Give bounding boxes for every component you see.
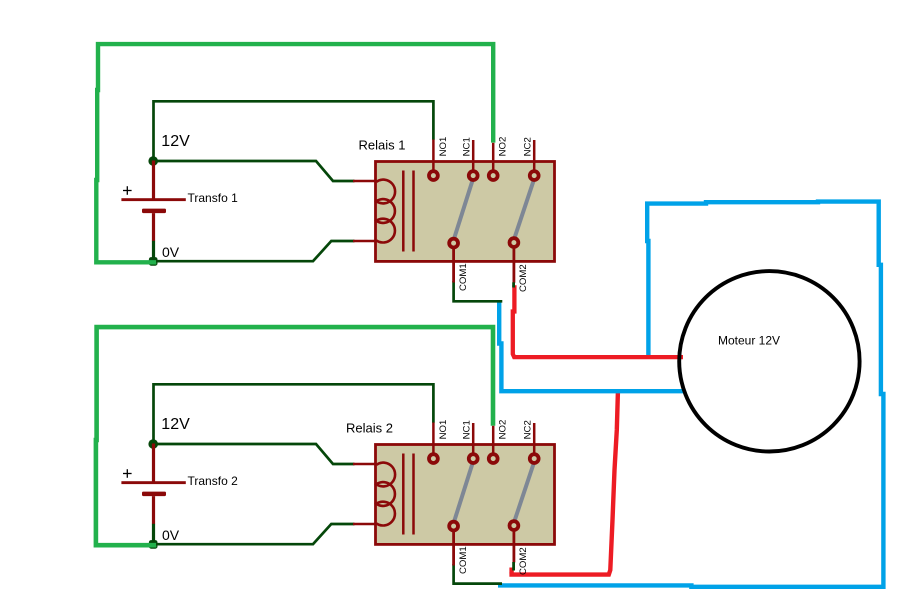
pin NO2 RL2 xyxy=(489,426,498,463)
pin NC1 RL2 xyxy=(469,423,478,463)
wire COM1 of RL1 to blue net xyxy=(454,281,503,301)
wire COM1 of RL2 to blue net xyxy=(454,564,502,584)
net label 0V circuit 1 xyxy=(162,244,180,260)
pin label NC2 RL2 xyxy=(523,420,534,439)
pin label NC2 RL1 xyxy=(523,137,534,156)
pin label NC1 RL1 xyxy=(462,137,473,156)
pin COM2 RL1 xyxy=(510,238,519,287)
svg-text:NC2: NC2 xyxy=(523,137,534,156)
svg-text:NO1: NO1 xyxy=(438,420,449,440)
node 12V junction circuit 2 xyxy=(148,439,158,449)
svg-text:Transfo 1: Transfo 1 xyxy=(188,191,239,205)
wire 12V rail to RL1 coil top xyxy=(154,161,355,181)
relay RL2 switch arm 1 xyxy=(454,464,472,522)
label Relais 1 xyxy=(359,138,406,153)
net label 12V circuit 2 xyxy=(161,416,190,433)
svg-text:NC2: NC2 xyxy=(523,420,534,439)
svg-text:NO1: NO1 xyxy=(438,137,449,157)
svg-text:Transfo 2: Transfo 2 xyxy=(188,474,239,488)
svg-text:COM2: COM2 xyxy=(518,264,529,292)
relay RL2 switch arm 2 xyxy=(515,464,534,521)
node 0V junction circuit 2 (dark square dot) xyxy=(149,540,158,549)
wire blue A (COM1 of RL1 to motor lower terminal) xyxy=(499,302,685,391)
net label 0V circuit 2 xyxy=(162,527,180,543)
pin NO2 RL1 xyxy=(489,143,498,180)
svg-text:COM2: COM2 xyxy=(518,547,529,575)
node 0V junction circuit 1 (dark square dot) xyxy=(149,257,158,266)
relay RL1 core bars xyxy=(403,171,413,252)
svg-text:12V: 12V xyxy=(161,416,190,433)
wire red 2 (COM2 of RL2 up to blue motor net) xyxy=(509,392,618,574)
label Relais 2 xyxy=(346,421,393,436)
net label 12V circuit 1 xyxy=(161,133,190,150)
wire 12V rail to RL2 coil top xyxy=(154,444,355,464)
relay RL1 switch arm 2 xyxy=(515,181,534,238)
wire blue loop (motor net B: around motor to COM1 of RL2) xyxy=(498,202,883,587)
polarity plus sign battery 1 xyxy=(123,186,132,195)
svg-text:0V: 0V xyxy=(162,527,180,543)
pin label NC1 RL2 xyxy=(462,420,473,439)
relay RL1 switch arm 1 xyxy=(454,181,472,239)
wire red 1 (COM2 of RL1 to motor upper terminal) xyxy=(513,285,683,357)
pin NO1 RL1 xyxy=(429,140,438,181)
value label Transfo 1 xyxy=(188,191,239,205)
svg-text:COM1: COM1 xyxy=(458,546,469,574)
pin NC2 RL1 xyxy=(530,140,539,180)
svg-text:12V: 12V xyxy=(161,133,190,150)
svg-text:Relais 1: Relais 1 xyxy=(359,138,406,153)
relay RL2 core bars xyxy=(403,454,413,535)
wire green supply loop circuit 1 (0V node to NO2 of RL1) xyxy=(96,44,493,262)
svg-text:NO2: NO2 xyxy=(498,420,509,440)
pin label NO1 RL1 xyxy=(438,137,449,157)
battery Transfo 2 xyxy=(121,444,185,542)
pin label COM1 RL2 xyxy=(458,546,469,574)
pin label COM2 RL1 xyxy=(518,264,529,292)
relay RL2 body xyxy=(376,445,555,545)
relay RL1 body xyxy=(376,162,555,262)
wire 12V-to-NO1 rail circuit 1 xyxy=(154,101,434,161)
pin label COM1 RL1 xyxy=(458,263,469,291)
pin NO1 RL2 xyxy=(429,423,438,464)
pin NC2 RL2 xyxy=(530,423,539,463)
svg-text:Moteur 12V: Moteur 12V xyxy=(718,333,780,347)
pin label NO1 RL2 xyxy=(438,420,449,440)
wire green supply loop circuit 2 (0V node to NO2 of RL2) xyxy=(96,327,493,545)
relay RL2 coil xyxy=(353,463,395,526)
wire 0V rail to RL1 coil bottom xyxy=(156,241,355,261)
relay RL1 coil xyxy=(353,180,395,243)
pin NC1 RL1 xyxy=(469,140,478,180)
pin COM1 RL1 xyxy=(449,239,458,283)
pin label NO2 RL1 xyxy=(498,137,509,157)
svg-text:Relais 2: Relais 2 xyxy=(346,421,393,436)
pin label COM2 RL2 xyxy=(518,547,529,575)
svg-text:NO2: NO2 xyxy=(498,137,509,157)
pin COM1 RL2 xyxy=(449,522,458,566)
wire 0V rail to RL2 coil bottom xyxy=(156,524,355,544)
label Moteur 12V xyxy=(718,333,780,347)
svg-text:0V: 0V xyxy=(162,244,180,260)
battery Transfo 1 xyxy=(121,161,185,259)
svg-text:NC1: NC1 xyxy=(462,137,473,156)
node 12V junction circuit 1 xyxy=(148,156,158,166)
motor M1 (circle) xyxy=(679,271,859,451)
wire 12V-to-NO1 rail circuit 2 xyxy=(154,384,434,444)
pin label NO2 RL2 xyxy=(498,420,509,440)
svg-text:NC1: NC1 xyxy=(462,420,473,439)
polarity plus sign battery 2 xyxy=(123,469,132,478)
value label Transfo 2 xyxy=(188,474,239,488)
pin COM2 RL2 xyxy=(510,521,519,570)
svg-text:COM1: COM1 xyxy=(458,263,469,291)
